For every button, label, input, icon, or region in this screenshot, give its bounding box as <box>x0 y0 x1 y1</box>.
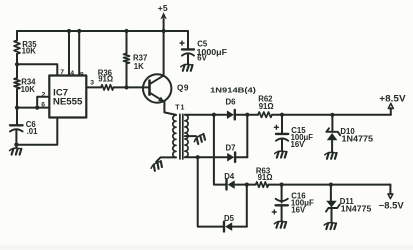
capacitor C5 top plate <box>182 48 194 50</box>
svg-text:D5: D5 <box>224 214 235 223</box>
svg-text:10K: 10K <box>21 85 36 94</box>
wire: pin 8 drop <box>78 31 80 76</box>
resistor R35 <box>14 40 20 54</box>
node: C16 junction <box>280 183 284 187</box>
diode D6 <box>227 110 234 119</box>
svg-text:T1: T1 <box>175 105 185 112</box>
power +8.5V terminal <box>388 103 393 114</box>
svg-text:4: 4 <box>70 70 74 77</box>
ground at C15 <box>275 151 287 157</box>
wire: R63 to -8.5V stub <box>269 184 391 186</box>
diode D5 <box>225 222 232 231</box>
wire: pin 7 elbow <box>17 64 57 75</box>
wire: D4 anode to R63 <box>235 184 256 186</box>
ground at T1 primary <box>150 161 164 172</box>
svg-text:Q9: Q9 <box>177 84 189 93</box>
wire: D11 to ground <box>331 207 333 222</box>
capacitor C6 curved plate <box>10 129 23 131</box>
transformer T1 primary winding <box>173 115 176 157</box>
resistor R62 <box>258 112 272 117</box>
node: junction R37 on +5 rail <box>124 29 128 33</box>
wire: top rail corner down to C5 <box>187 31 189 49</box>
wire: C15 feed <box>281 115 283 134</box>
zener diode D11 <box>326 201 340 212</box>
ground at D10 <box>325 152 337 158</box>
wire: C15 to ground <box>281 140 283 151</box>
wire: left rail between R35 and R34 <box>16 54 18 78</box>
diode D7 <box>227 153 234 162</box>
svg-text:6V: 6V <box>197 54 207 63</box>
node: pin2/pin6 junction <box>35 106 39 110</box>
power -8.5V terminal <box>388 185 393 199</box>
resistor R34 <box>14 78 20 89</box>
node: junction pin8 drop on +5 rail <box>77 29 81 33</box>
wire: pin 4 drop <box>68 31 70 76</box>
svg-text:3: 3 <box>90 80 94 87</box>
wire: left rail below R34 to C6 <box>16 89 18 125</box>
svg-text:1N4775: 1N4775 <box>341 205 372 214</box>
wire: D6 cathode to R62 <box>235 114 258 116</box>
capacitor C16 curved plate <box>276 199 288 201</box>
svg-text:D4: D4 <box>224 172 235 181</box>
node: junction pin6 wire on left rail <box>15 106 19 110</box>
wire: C16 feed <box>281 185 283 203</box>
transistor Q9 <box>143 74 171 102</box>
op-amp/timer IC7 NE555 box <box>49 76 86 118</box>
wire: primary bottom to ground <box>156 157 176 161</box>
zener diode D10 <box>326 128 340 140</box>
transformer T1 secondary winding <box>185 115 188 157</box>
node: D11 junction <box>329 183 333 187</box>
wire: pin 3 to R36 <box>86 86 101 88</box>
wire: C16 to ground <box>281 205 283 221</box>
node: D10 junction <box>330 113 334 117</box>
svg-text:10K: 10K <box>22 47 37 56</box>
resistor R37 <box>124 54 130 64</box>
node: secondary top / D4 branch <box>212 113 216 117</box>
wire: pin 2 elbow <box>37 97 49 108</box>
wire: C5 feed + plus sign <box>180 41 184 45</box>
node: junction pin4 drop on +5 rail <box>67 29 71 33</box>
wire: R37 to base junction <box>126 64 128 88</box>
node: C15 junction <box>280 113 284 117</box>
transformer T1 core <box>180 114 183 159</box>
svg-text:D7: D7 <box>226 144 236 153</box>
wire: D5 anode riser <box>246 185 248 227</box>
svg-text:1K: 1K <box>134 62 144 71</box>
node: C6/pin1 ground junction <box>14 143 18 147</box>
svg-text:16V: 16V <box>291 206 306 215</box>
capacitor C15 top plate <box>276 133 288 135</box>
wire: T1 center tap <box>185 135 196 137</box>
wire: C6 bottom to ground junction <box>15 130 17 147</box>
capacitor C5 curved plate <box>182 53 194 55</box>
svg-text:−8.5V: −8.5V <box>379 201 404 211</box>
wire: D10 to ground <box>331 140 333 152</box>
capacitor C6 top plate <box>10 124 23 126</box>
svg-text:+5: +5 <box>158 3 168 13</box>
ground at C16 <box>274 221 286 227</box>
wire: +5 top rail <box>17 30 188 32</box>
wire: C5 to ground <box>187 54 189 64</box>
wire: secondary bottom to D7 <box>185 156 227 158</box>
wire: pin 6 from left rail to IC <box>17 107 49 109</box>
svg-text:.01: .01 <box>27 127 39 136</box>
svg-text:91Ω: 91Ω <box>259 102 274 111</box>
ground at C6 <box>10 148 22 154</box>
node: secondary bottom / D5 branch <box>196 155 200 159</box>
node: D4/D5 anode junction <box>245 183 249 187</box>
svg-text:D6: D6 <box>226 97 237 106</box>
ground at D11 <box>324 223 336 229</box>
wire: secondary top to D6 <box>185 114 227 116</box>
diode D4 <box>228 180 235 189</box>
node: +5 supply junction / Q9 collector <box>162 29 166 33</box>
svg-text:NE555: NE555 <box>53 96 83 106</box>
wire: Q9 emitter down to T1 primary <box>164 102 176 115</box>
wire: D7 cathode riser <box>246 115 248 158</box>
svg-text:1N4775: 1N4775 <box>342 135 374 144</box>
svg-text:8: 8 <box>80 71 84 78</box>
resistor R37 drop from rail <box>126 31 128 54</box>
svg-text:16V: 16V <box>291 140 306 149</box>
wire: pin1 to ground elbow <box>16 118 57 145</box>
wire: D7 cathode to riser <box>235 156 247 158</box>
svg-text:91Ω: 91Ω <box>98 75 113 84</box>
node: junction pin7 wire on left rail <box>15 62 19 66</box>
capacitor C16 bottom plate <box>276 204 288 206</box>
node: R36/R37/base junction <box>124 85 128 89</box>
wire: left rail (upper) <box>16 31 18 40</box>
wire: D10 feed <box>331 115 333 132</box>
wire: Q9 collector up to +5 rail <box>163 31 165 76</box>
wire: drop to D5 row <box>198 157 224 226</box>
svg-text:91Ω: 91Ω <box>258 173 273 182</box>
wire: drop to D4 row <box>214 115 227 185</box>
svg-text:1N914B(4): 1N914B(4) <box>210 86 256 95</box>
capacitor C15 curved plate <box>276 139 288 141</box>
ground at T1 center tap <box>193 133 207 145</box>
node: D6/D7 cathode junction <box>245 113 249 117</box>
wire: R36 to Q9 base <box>114 86 150 88</box>
capacitor C16 plus sign <box>272 210 276 214</box>
resistor R36 <box>101 85 114 90</box>
wire: R62 to +8.5V stub <box>272 114 391 116</box>
capacitor C15 plus sign <box>274 125 278 129</box>
wire: D5 anode to riser <box>232 226 247 228</box>
wire: D11 feed <box>330 185 332 201</box>
svg-text:+8.5V: +8.5V <box>379 93 405 103</box>
resistor R63 <box>256 182 269 187</box>
power +5 terminal arrow <box>160 12 166 31</box>
ground at C5 <box>181 64 193 70</box>
svg-text:7: 7 <box>60 69 64 76</box>
